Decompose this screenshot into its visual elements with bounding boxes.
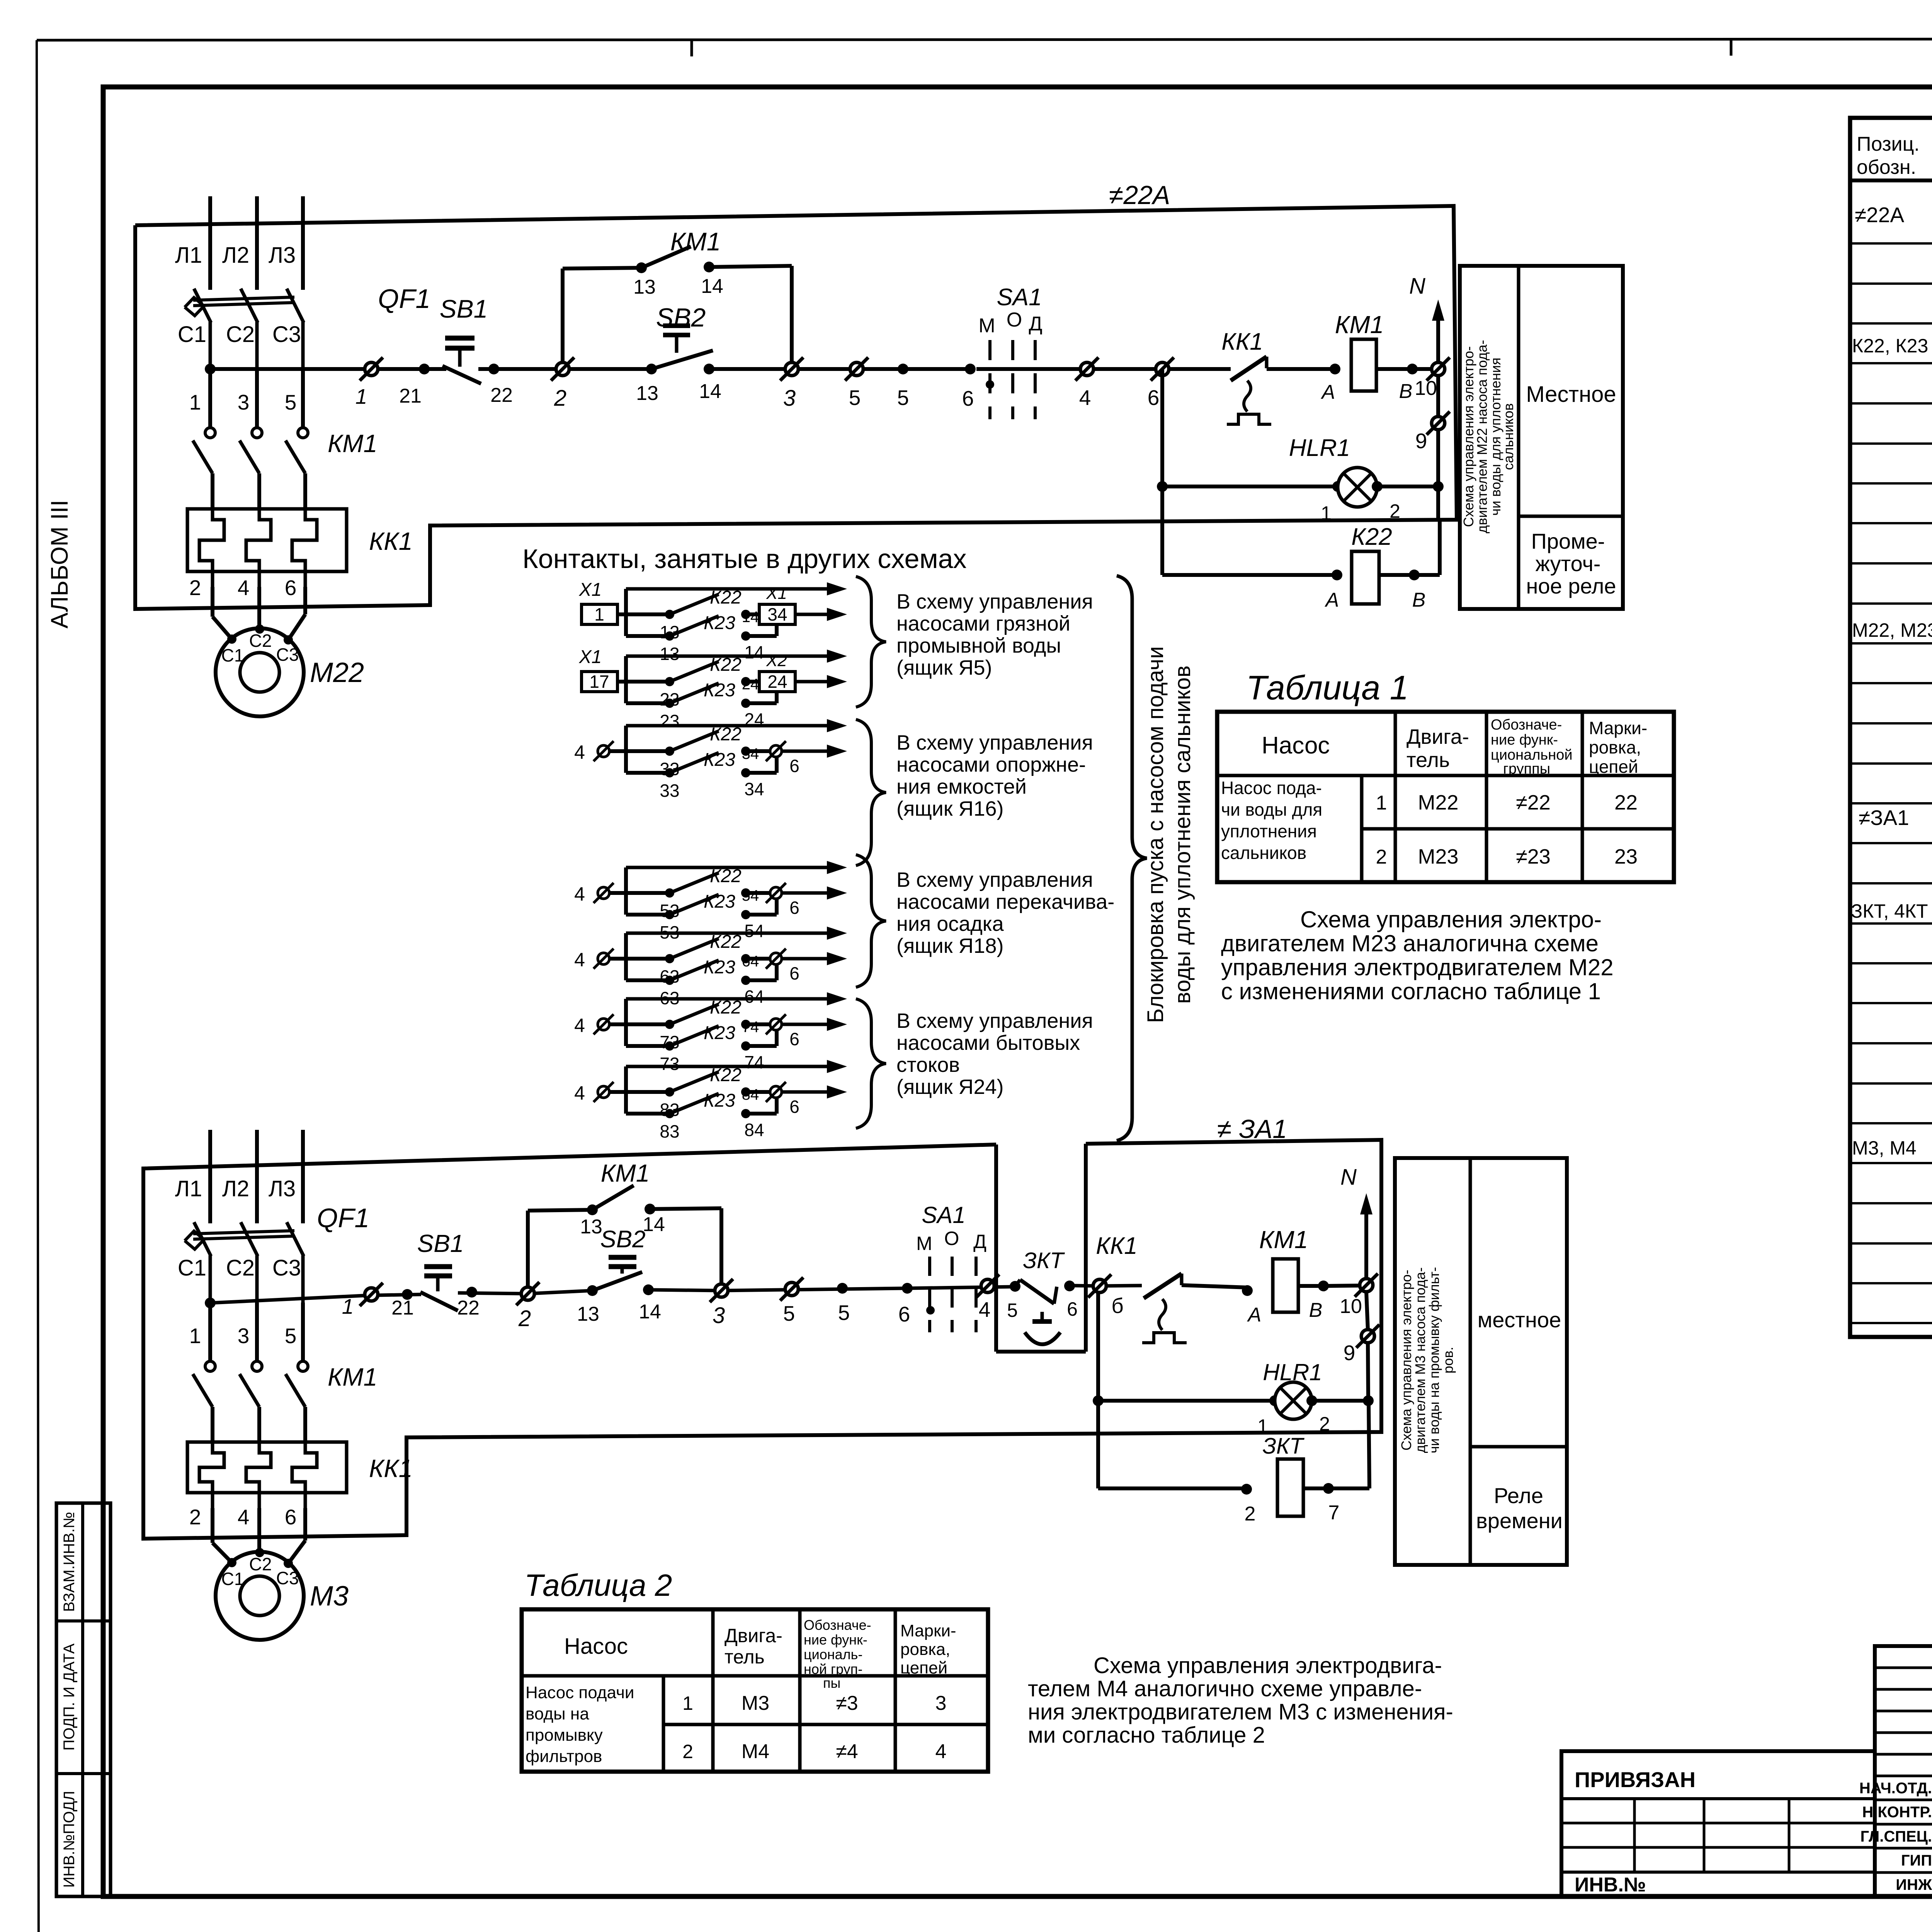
svg-text:К22: К22: [710, 587, 742, 608]
relay coil K22 c1: [1162, 573, 1337, 577]
svg-text:К22: К22: [1351, 524, 1392, 550]
node 4 (terminal): [598, 1019, 609, 1030]
brace group B: [856, 719, 886, 866]
big brace interlock: [1117, 576, 1147, 1141]
svg-text:ния емкостей: ния емкостей: [896, 775, 1027, 798]
svg-text:ИНЖ: ИНЖ: [1896, 1876, 1932, 1893]
svg-text:С1: С1: [178, 322, 206, 347]
svg-text:6: 6: [285, 576, 297, 600]
svg-text:Местное: Местное: [1526, 382, 1616, 407]
svg-text:74: 74: [742, 1019, 759, 1036]
svg-text:К22: К22: [710, 655, 742, 675]
svg-text:А: А: [1321, 381, 1335, 403]
wire phases to KM1 contacts: [208, 369, 212, 428]
svg-text:6: 6: [1067, 1298, 1078, 1320]
svg-text:13: 13: [577, 1303, 599, 1325]
brace group C: [856, 855, 886, 987]
svg-text:М3: М3: [742, 1692, 769, 1714]
svg-text:ПОДП. И ДАТА: ПОДП. И ДАТА: [61, 1643, 78, 1751]
svg-text:24: 24: [767, 672, 787, 692]
svg-text:ми согласно таблице 2: ми согласно таблице 2: [1028, 1723, 1265, 1748]
svg-text:М22: М22: [310, 657, 364, 688]
node 10 (terminal) c2: [1360, 1279, 1373, 1292]
svg-text:насосами грязной: насосами грязной: [896, 612, 1070, 635]
left stamp table: [56, 1503, 111, 1896]
svg-text:Д: Д: [1029, 313, 1042, 335]
svg-text:б: б: [1111, 1294, 1124, 1318]
svg-text:1: 1: [1376, 792, 1387, 814]
svg-text:С3: С3: [272, 1255, 301, 1281]
svg-text:К23: К23: [704, 1023, 735, 1043]
svg-text:ЗКТ: ЗКТ: [1023, 1248, 1065, 1273]
relay contact K22: [626, 612, 670, 616]
sheet outer border: [37, 39, 1932, 40]
svg-text:В схему управления: В схему управления: [896, 1009, 1093, 1032]
motor М22: [216, 628, 304, 716]
svg-text:Схема управления электро-: Схема управления электро-: [1300, 906, 1602, 932]
svg-text:(ящик Я5): (ящик Я5): [896, 656, 992, 679]
relay contact K23: [626, 913, 670, 917]
svg-text:1: 1: [594, 604, 604, 624]
svg-text:3: 3: [238, 390, 250, 414]
svg-text:К22, К23: К22, К23: [1852, 335, 1928, 357]
svg-text:К23: К23: [704, 891, 735, 912]
svg-text:С2: С2: [226, 1255, 255, 1281]
svg-text:ровка,: ровка,: [1589, 737, 1641, 757]
svg-text:2: 2: [189, 1505, 201, 1529]
svg-text:≠3: ≠3: [836, 1692, 858, 1714]
svg-text:14: 14: [701, 275, 723, 298]
svg-text:двигателем М3 насоса пода-: двигателем М3 насоса пода-: [1412, 1267, 1428, 1453]
svg-text:≠22: ≠22: [1516, 791, 1551, 814]
relay contact K23: [626, 701, 670, 705]
node 3 (terminal) c2: [715, 1284, 728, 1297]
svg-text:73: 73: [660, 1054, 679, 1074]
node 6 (terminal): [746, 891, 770, 895]
svg-text:цепей: цепей: [900, 1658, 947, 1677]
svg-text:6: 6: [789, 1029, 799, 1049]
svg-text:фильтров: фильтров: [526, 1747, 602, 1766]
wire main control line c2: [210, 1294, 421, 1303]
svg-text:34: 34: [767, 604, 787, 624]
svg-text:С3: С3: [276, 645, 299, 665]
svg-text:ное реле: ное реле: [1526, 574, 1616, 598]
svg-text:SA1: SA1: [997, 284, 1042, 311]
svg-text:4: 4: [574, 949, 585, 971]
wire neutral N c1: [1436, 309, 1440, 362]
svg-text:4: 4: [935, 1740, 947, 1763]
svg-text:3: 3: [935, 1692, 947, 1714]
svg-text:2: 2: [554, 386, 566, 411]
svg-text:2: 2: [189, 576, 201, 600]
svg-text:2: 2: [1376, 846, 1387, 868]
svg-text:9: 9: [1344, 1341, 1355, 1365]
svg-text:1: 1: [189, 1324, 201, 1348]
svg-text:2: 2: [682, 1741, 693, 1762]
svg-text:С2: С2: [226, 322, 255, 347]
svg-text:Блокировка пуска с насосом: Блокировка пуска с насосом подачи: [1143, 646, 1168, 1023]
svg-text:тель: тель: [724, 1646, 765, 1668]
svg-text:34: 34: [742, 745, 759, 762]
svg-text:3: 3: [238, 1324, 250, 1348]
wire line to 5 5: [798, 367, 850, 371]
svg-text:тель: тель: [1406, 748, 1450, 772]
svg-text:промывной воды: промывной воды: [896, 634, 1061, 657]
relay contact K23: [626, 771, 670, 775]
svg-text:2: 2: [1319, 1413, 1330, 1435]
lamp HLR1 c1: [1160, 369, 1164, 575]
svg-text:14: 14: [742, 609, 759, 626]
svg-text:64: 64: [742, 953, 759, 970]
svg-text:Двига-: Двига-: [724, 1625, 782, 1646]
svg-text:Х1: Х1: [579, 580, 602, 600]
svg-text:22: 22: [490, 384, 513, 406]
svg-text:SB2: SB2: [656, 303, 706, 332]
svg-text:2: 2: [1389, 500, 1400, 522]
relay contact K23: [626, 1044, 670, 1048]
node 4 (terminal) c2: [981, 1279, 994, 1293]
svg-text:4: 4: [574, 1015, 585, 1036]
svg-text:Позиц.: Позиц.: [1857, 133, 1920, 155]
svg-text:К23: К23: [704, 957, 735, 978]
svg-text:С3: С3: [272, 322, 301, 347]
svg-text:Н.КОНТР.: Н.КОНТР.: [1862, 1804, 1932, 1821]
svg-text:5: 5: [285, 1324, 297, 1348]
node 9 (terminal) c2: [1361, 1330, 1374, 1343]
svg-text:двигателем М23 аналогична с: двигателем М23 аналогична схеме: [1221, 930, 1599, 956]
motor М3: [216, 1552, 304, 1640]
svg-text:местное: местное: [1478, 1308, 1561, 1332]
svg-text:С3: С3: [276, 1568, 299, 1588]
svg-text:Насос подачи: Насос подачи: [526, 1683, 634, 1702]
svg-text:чи воды на промывку фильт-: чи воды на промывку фильт-: [1426, 1267, 1442, 1453]
svg-text:HLR1: HLR1: [1289, 435, 1350, 461]
svg-text:(ящик Я16): (ящик Я16): [896, 797, 1004, 820]
svg-text:Х1: Х1: [579, 647, 602, 667]
svg-text:ния электродвигателем М3 с и: ния электродвигателем М3 с изменения-: [1028, 1699, 1453, 1725]
node 1 (terminal) c2: [365, 1288, 378, 1301]
svg-text:SA1: SA1: [922, 1202, 965, 1228]
svg-text:6: 6: [789, 1097, 799, 1117]
svg-text:4: 4: [574, 1082, 585, 1104]
table 2: [522, 1609, 988, 1772]
svg-text:К23: К23: [704, 680, 735, 701]
svg-text:SB1: SB1: [417, 1230, 464, 1257]
svg-text:О: О: [1007, 309, 1022, 331]
breaker QF1: [194, 1222, 211, 1256]
svg-text:КМ1: КМ1: [601, 1159, 650, 1187]
svg-text:циональ-: циональ-: [804, 1646, 862, 1662]
svg-text:4: 4: [238, 576, 250, 600]
svg-text:С1: С1: [178, 1255, 206, 1281]
svg-text:2: 2: [518, 1306, 531, 1331]
wire contact group feed: [626, 724, 835, 728]
svg-text:Марки-: Марки-: [1589, 718, 1647, 738]
svg-text:≠23: ≠23: [1516, 845, 1551, 868]
pushbutton SB1 c2: [420, 1292, 458, 1311]
svg-text:Таблица 1: Таблица 1: [1246, 668, 1409, 707]
svg-text:22: 22: [457, 1297, 480, 1319]
time relay contact 3KT (notch): [994, 1145, 998, 1352]
svg-text:С1: С1: [221, 645, 244, 665]
node 4 (terminal): [598, 745, 609, 757]
svg-text:83: 83: [660, 1121, 679, 1141]
svg-text:ние функ-: ние функ-: [804, 1632, 867, 1648]
svg-text:промывку: промывку: [526, 1726, 603, 1745]
relay contact K22: [626, 957, 670, 961]
svg-text:4: 4: [574, 742, 585, 763]
svg-text:ГЛ.СПЕЦ.: ГЛ.СПЕЦ.: [1860, 1828, 1932, 1845]
svg-text:КМ1: КМ1: [328, 429, 378, 457]
circuit 2 enclosure box (cabinet #3A1): [143, 1140, 1381, 1539]
svg-text:3: 3: [783, 386, 796, 411]
svg-text:6: 6: [789, 963, 799, 983]
svg-text:5: 5: [1007, 1299, 1018, 1321]
svg-text:ПРИВЯЗАН: ПРИВЯЗАН: [1575, 1767, 1696, 1792]
svg-text:Двига-: Двига-: [1406, 725, 1469, 748]
svg-text:ИНВ.№: ИНВ.№: [1575, 1874, 1646, 1896]
svg-text:ГИП: ГИП: [1901, 1852, 1932, 1869]
svg-text:Реле: Реле: [1494, 1483, 1543, 1508]
svg-text:М: М: [916, 1233, 932, 1254]
svg-text:Контакты, занятые в других с: Контакты, занятые в других схемах: [522, 544, 967, 574]
relay contact K23: [626, 634, 670, 638]
thermal relay KK1 heaters box: [187, 509, 347, 571]
svg-text:Проме-: Проме-: [1531, 529, 1605, 553]
svg-text:К23: К23: [704, 613, 735, 633]
svg-text:QF1: QF1: [317, 1203, 369, 1233]
svg-text:6: 6: [789, 756, 799, 776]
svg-text:Л1: Л1: [175, 1176, 202, 1201]
svg-text:2: 2: [1245, 1503, 1256, 1525]
contactor KM1 aux contact bridge 13-14: [561, 269, 565, 362]
node 10 (terminal) c1: [1432, 362, 1445, 376]
node 6 (terminal): [746, 1022, 770, 1026]
wire neutral N c2: [1364, 1204, 1368, 1279]
contactor KM1 main contacts: [205, 1361, 215, 1371]
svg-text:10: 10: [1415, 377, 1437, 400]
time relay coil 3KT c2: [1098, 1486, 1247, 1490]
node 6 (terminal) c1: [1156, 362, 1169, 376]
node 2 (terminal): [556, 362, 569, 376]
svg-text:времени: времени: [1476, 1509, 1563, 1533]
svg-text:насосами бытовых: насосами бытовых: [896, 1031, 1080, 1054]
svg-text:13: 13: [633, 276, 656, 298]
svg-text:телем М4 аналогично схеме у: телем М4 аналогично схеме управле-: [1028, 1676, 1422, 1701]
svg-text:КМ1: КМ1: [670, 227, 721, 256]
svg-text:4: 4: [238, 1505, 250, 1529]
relay contact K22: [626, 1090, 670, 1094]
svg-text:воды на: воды на: [526, 1704, 589, 1723]
wire phases to KM1 contacts: [208, 1303, 212, 1361]
node 4 (terminal): [598, 887, 609, 899]
svg-text:6: 6: [898, 1302, 910, 1326]
wire to SB1: [378, 367, 424, 371]
svg-text:(ящик Я18): (ящик Я18): [896, 934, 1004, 957]
svg-text:Насос: Насос: [1262, 732, 1330, 759]
table 1: [1217, 712, 1674, 882]
svg-text:пы: пы: [823, 1675, 840, 1691]
lamp HLR1 c2: [1096, 1293, 1100, 1488]
svg-text:6: 6: [285, 1505, 297, 1529]
privyazan box: [1561, 1751, 1875, 1896]
wire contact group feed: [626, 587, 835, 591]
svg-text:О: О: [944, 1228, 959, 1249]
svg-text:34: 34: [744, 779, 764, 799]
svg-text:QF1: QF1: [378, 284, 430, 314]
svg-text:23: 23: [1614, 845, 1638, 868]
wire contact group feed: [626, 932, 835, 935]
svg-text:Х1: Х1: [766, 584, 787, 603]
svg-text:М22: М22: [1418, 791, 1458, 814]
svg-text:уплотнения: уплотнения: [1221, 821, 1317, 841]
svg-text:ЗКТ: ЗКТ: [1262, 1434, 1304, 1459]
svg-text:А: А: [1247, 1304, 1262, 1326]
svg-text:Л2: Л2: [222, 243, 249, 268]
svg-text:6: 6: [1148, 386, 1160, 410]
svg-text:84: 84: [742, 1086, 759, 1103]
svg-text:Насос пода-: Насос пода-: [1221, 778, 1322, 798]
pushbutton SB1 (stop): [442, 366, 481, 384]
svg-text:Л1: Л1: [175, 243, 202, 268]
relay contact K23: [626, 978, 670, 982]
svg-text:В: В: [1399, 380, 1413, 403]
svg-text:N: N: [1409, 274, 1425, 299]
svg-text:5: 5: [783, 1301, 795, 1325]
right component list table: [1850, 118, 1932, 1337]
svg-text:К22: К22: [710, 997, 742, 1018]
node 5 (terminal): [850, 362, 863, 376]
svg-text:33: 33: [660, 781, 679, 801]
breaker QF1: [194, 289, 211, 323]
svg-text:В схему управления: В схему управления: [896, 590, 1093, 613]
relay contact K22: [626, 749, 670, 753]
contactor KM1 aux bridge c2: [526, 1211, 530, 1287]
svg-text:6: 6: [962, 386, 974, 410]
svg-text:цепей: цепей: [1589, 757, 1638, 777]
svg-text:К23: К23: [704, 1090, 735, 1111]
svg-text:1: 1: [682, 1692, 693, 1714]
svg-text:М23: М23: [1418, 845, 1458, 868]
svg-text:10: 10: [1340, 1295, 1362, 1318]
svg-text:С2: С2: [249, 631, 272, 651]
svg-text:воды для уплотнения сальник: воды для уплотнения сальников: [1170, 665, 1195, 1004]
svg-text:М3: М3: [310, 1581, 349, 1612]
node 1 (terminal): [365, 362, 378, 376]
svg-text:М4: М4: [742, 1740, 769, 1763]
svg-text:К22: К22: [710, 866, 742, 886]
svg-text:Схема управления электро-: Схема управления электро-: [1398, 1270, 1414, 1451]
svg-text:Л3: Л3: [269, 1176, 296, 1201]
relay contact K22: [626, 891, 670, 895]
svg-text:КМ1: КМ1: [1335, 311, 1384, 338]
svg-text:7: 7: [1328, 1502, 1340, 1524]
brace group D: [856, 999, 886, 1128]
svg-text:К22: К22: [710, 724, 742, 745]
fold mark ticks on top border: [690, 40, 693, 56]
mode box c1: [1460, 266, 1623, 609]
svg-text:ВЗАМ.ИНВ.№: ВЗАМ.ИНВ.№: [61, 1512, 78, 1612]
svg-text:22: 22: [1614, 791, 1638, 814]
svg-text:23: 23: [660, 711, 679, 731]
svg-text:ной груп-: ной груп-: [804, 1661, 862, 1677]
svg-text:1: 1: [1321, 502, 1332, 524]
svg-text:К23: К23: [704, 750, 735, 770]
svg-text:21: 21: [399, 385, 422, 407]
svg-text:В схему управления: В схему управления: [896, 731, 1093, 754]
svg-text:4: 4: [1079, 386, 1091, 410]
svg-text:группы: группы: [1503, 761, 1550, 777]
svg-text:обозн.: обозн.: [1857, 156, 1916, 179]
node 6 (terminal): [746, 957, 770, 961]
svg-text:54: 54: [744, 921, 764, 941]
svg-text:14: 14: [643, 1213, 665, 1236]
wire main control line c1: [210, 367, 365, 371]
node 5 (terminal) c2: [785, 1282, 798, 1296]
svg-text:Л3: Л3: [269, 243, 296, 268]
svg-text:Х2: Х2: [766, 651, 787, 670]
svg-text:4: 4: [979, 1298, 991, 1321]
svg-text:17: 17: [589, 672, 609, 692]
wire contact group feed: [626, 1065, 835, 1068]
svg-text:чи воды для: чи воды для: [1221, 799, 1322, 820]
svg-text:К22: К22: [710, 932, 742, 952]
svg-text:≠22А: ≠22А: [1109, 180, 1170, 210]
svg-text:1: 1: [189, 390, 201, 414]
svg-text:КК1: КК1: [1096, 1233, 1138, 1259]
mode box c2: [1395, 1158, 1567, 1565]
brace group A: [856, 577, 886, 707]
pushbutton SB2 c2: [592, 1272, 642, 1291]
svg-text:≠ ЗА1: ≠ ЗА1: [1217, 1114, 1287, 1144]
wire phases to motor: [211, 587, 214, 617]
relay contact K22: [626, 1022, 670, 1026]
node 4 (terminal) c1: [1080, 362, 1094, 376]
svg-text:SB2: SB2: [600, 1226, 645, 1253]
circuit 1 enclosure box (cabinet #22A): [135, 206, 1457, 609]
svg-text:КК1: КК1: [1221, 328, 1263, 355]
svg-text:Марки-: Марки-: [900, 1621, 956, 1640]
svg-text:13: 13: [580, 1216, 602, 1238]
wire phase stubs L1 L2 L3: [208, 1130, 212, 1223]
svg-text:НАЧ.ОТД.: НАЧ.ОТД.: [1859, 1780, 1932, 1797]
svg-text:ровка,: ровка,: [900, 1640, 950, 1659]
svg-text:управления электродвигателем: управления электродвигателем М22: [1221, 954, 1614, 980]
wire contact group feed: [626, 866, 835, 869]
node 3 (terminal): [785, 362, 798, 376]
relay contact K23: [626, 1112, 670, 1116]
svg-text:насосами перекачива-: насосами перекачива-: [896, 890, 1114, 913]
svg-text:с изменениями согласно табли: с изменениями согласно таблице 1: [1221, 978, 1601, 1004]
svg-text:3: 3: [713, 1303, 725, 1328]
svg-text:Схема управления электродвиг: Схема управления электродвига-: [1094, 1653, 1442, 1678]
svg-text:В: В: [1309, 1299, 1323, 1321]
svg-text:Л2: Л2: [222, 1176, 249, 1201]
svg-text:14: 14: [639, 1301, 661, 1323]
wire contact group feed: [626, 997, 835, 1001]
node 2 (terminal) c2: [521, 1287, 534, 1300]
svg-text:В: В: [1412, 589, 1426, 611]
svg-text:54: 54: [742, 887, 759, 904]
svg-text:≠22А: ≠22А: [1855, 203, 1904, 227]
svg-text:9: 9: [1415, 429, 1427, 453]
svg-text:5: 5: [897, 386, 909, 410]
svg-text:5: 5: [285, 390, 297, 414]
svg-text:ния осадка: ния осадка: [896, 912, 1004, 935]
svg-text:АЛЬБОМ III: АЛЬБОМ III: [46, 500, 73, 629]
svg-text:КК1: КК1: [369, 527, 413, 555]
wire contact group feed: [626, 655, 835, 658]
